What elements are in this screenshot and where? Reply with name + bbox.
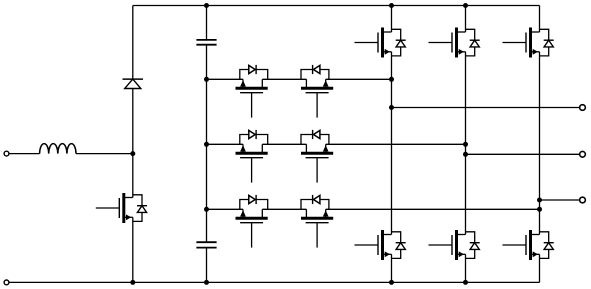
wire bus bottom to DC- rail — [206, 248, 208, 283]
node phase B at leg 2 — [463, 152, 468, 157]
node row 1 at leg 1 — [389, 77, 394, 82]
wire leg 2 to DC- rail — [465, 254, 467, 282]
wire row 3 middle — [262, 208, 306, 210]
transistor Q10 row 2 left — [236, 130, 268, 183]
wire boost diode to MOSFET — [132, 89, 134, 198]
input terminal AC+ — [4, 151, 9, 156]
transistor Q2 leg 2 high — [429, 28, 480, 58]
transistor Q8 row 1 left — [236, 65, 268, 118]
wire row 2 to leg 2 — [326, 143, 466, 145]
transistor Q11 row 2 right — [301, 130, 333, 183]
transistor Q12 row 3 left — [236, 195, 268, 248]
wire phase C output — [540, 199, 580, 201]
wire leg 1 rail to Q1 — [391, 6, 393, 33]
output terminal A — [580, 105, 586, 111]
wire bus top to C1 — [206, 6, 208, 40]
wire leg 2 rail to Q2 — [465, 6, 467, 33]
diode D1 boost — [123, 79, 144, 88]
output terminal B — [580, 151, 586, 157]
wire phase A output — [392, 107, 580, 109]
transistor Q6 leg 3 low — [503, 230, 554, 260]
node bus bottom — [204, 280, 209, 285]
wire leg 3 to DC- rail — [539, 254, 541, 282]
wire row 2 middle — [262, 143, 306, 145]
node phase A at leg 1 — [389, 105, 394, 110]
transistor Q5 leg 2 low — [429, 230, 480, 260]
wire top DC+ rail — [133, 5, 540, 7]
node boost source on DC- rail — [130, 280, 135, 285]
transistor Q13 row 3 right — [301, 195, 333, 248]
wire inductor to boost leg — [76, 153, 133, 155]
capacitor C2 — [196, 242, 216, 247]
node midpoint row 1 — [204, 77, 209, 82]
wire leg 2 middle — [465, 52, 467, 235]
transistor Q1 leg 1 high — [355, 28, 406, 58]
output terminal C — [580, 197, 586, 203]
node phase C at leg 3 — [537, 198, 542, 203]
node midpoint row 3 — [204, 207, 209, 212]
node boost junction — [130, 151, 135, 156]
node midpoint row 2 — [204, 142, 209, 147]
inductor L1 — [40, 144, 76, 154]
node row 3 at leg 3 — [537, 207, 542, 212]
wire phase B output — [466, 153, 580, 155]
wire row 2 bus to Q10 — [207, 143, 244, 145]
transistor Q9 row 1 right — [301, 65, 333, 118]
node bus top — [204, 3, 209, 8]
wire row 3 bus to Q12 — [207, 208, 244, 210]
wire bus midpoint — [206, 45, 208, 243]
wire boost MOSFET to DC- rail — [132, 217, 134, 282]
wire row 3 to leg 3 — [326, 208, 540, 210]
input terminal AC- — [4, 280, 9, 285]
wire row 1 to leg 1 — [326, 78, 392, 80]
node leg 1 top — [389, 3, 394, 8]
transistor Q4 leg 1 low — [355, 230, 406, 260]
transistor Q7 boost MOSFET — [96, 193, 147, 223]
node row 2 at leg 2 — [463, 142, 468, 147]
node leg 1 bottom — [389, 280, 394, 285]
wire bottom DC- rail — [10, 281, 540, 283]
node leg 2 bottom — [463, 280, 468, 285]
wire leg 3 middle — [539, 52, 541, 235]
wire leg 1 to DC- rail — [391, 254, 393, 282]
node leg 2 top — [463, 3, 468, 8]
wire boost leg upper — [132, 6, 134, 80]
wire row 1 bus to Q8 — [207, 78, 244, 80]
transistor Q3 leg 3 high — [503, 28, 554, 58]
wire input to inductor — [10, 153, 40, 155]
capacitor C1 — [196, 40, 216, 45]
wire row 1 middle — [262, 78, 306, 80]
wire leg 1 middle — [391, 52, 393, 235]
wire leg 3 rail to Q3 — [539, 6, 541, 33]
